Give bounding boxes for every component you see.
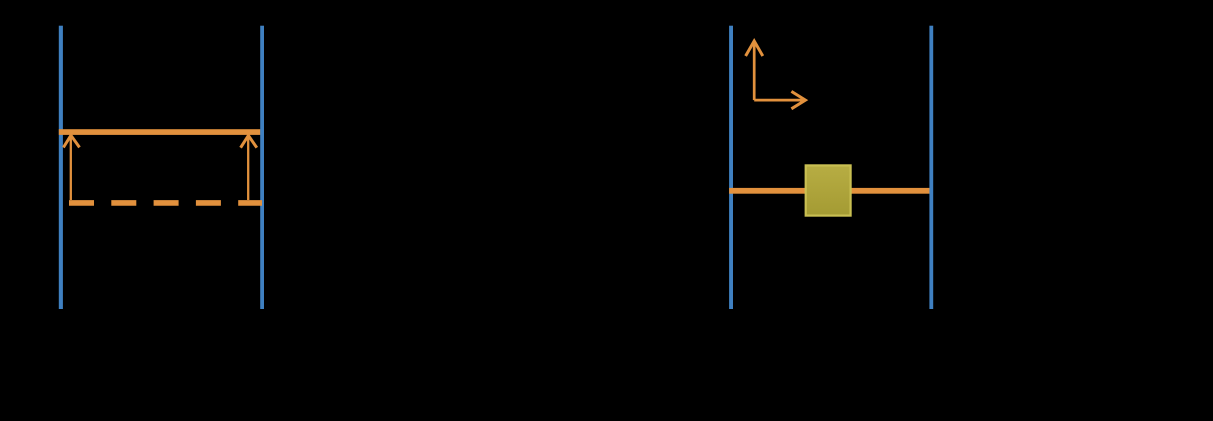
right diagram: sliding block (dark yellow square): [806, 165, 851, 215]
right diagram: right rail: [929, 26, 933, 309]
left diagram: left rail: [59, 26, 63, 309]
left diagram: right displacement arrow: [241, 136, 257, 201]
left diagram: dashed initial-position line: [69, 200, 262, 206]
left diagram: right rail: [260, 26, 264, 309]
right diagram: left rail: [729, 26, 733, 309]
right diagram: coordinate axes, vertical (y) arrow: [746, 41, 763, 100]
left diagram: left displacement arrow: [63, 135, 79, 200]
right diagram: coordinate axes, horizontal (x) arrow: [754, 91, 805, 108]
right diagram: conducting bar (orange): [729, 188, 930, 194]
left diagram: conducting bar (solid orange): [59, 129, 261, 135]
